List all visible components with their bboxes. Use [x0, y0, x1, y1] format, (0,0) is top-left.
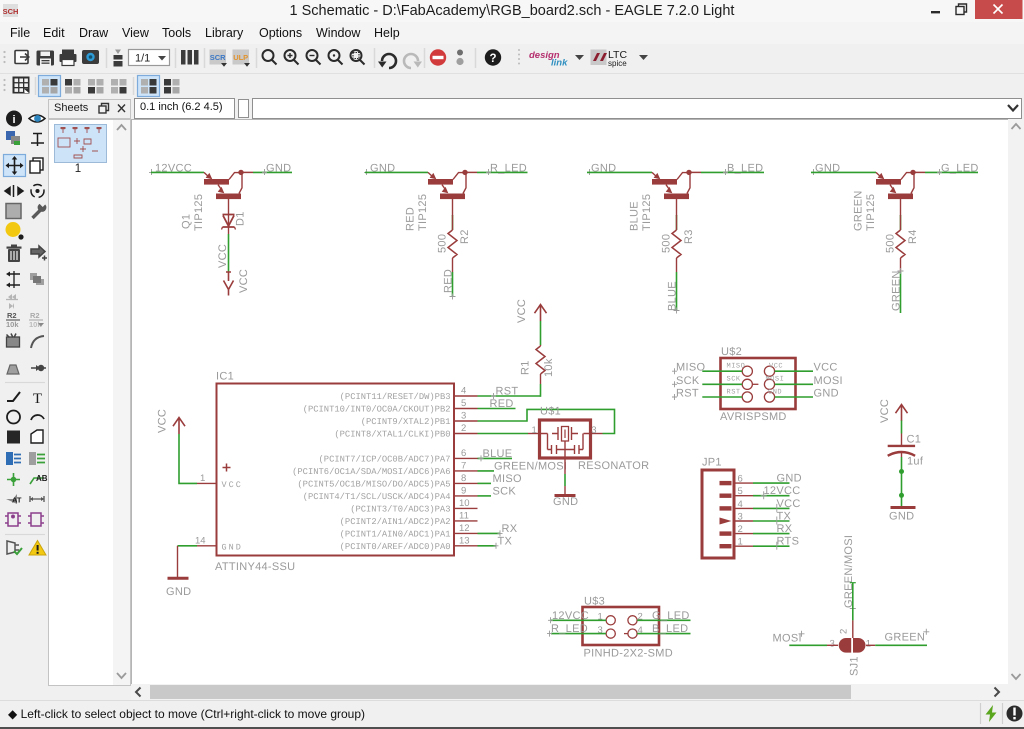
svg-text:RST: RST — [727, 388, 741, 396]
node GND label — [262, 163, 291, 176]
svg-text:2: 2 — [461, 423, 466, 434]
wire R1 to RST net — [540, 384, 542, 397]
supply VCC arrow down — [224, 272, 234, 296]
node B_LED label — [723, 163, 763, 176]
svg-text:1: 1 — [738, 537, 743, 548]
wire U$2 to MOSI — [775, 383, 813, 385]
transistor Q4 GREEN TIP125 — [876, 170, 916, 199]
svg-text:GND: GND — [777, 473, 802, 485]
svg-text:5: 5 — [461, 398, 466, 409]
svg-text:GREEN: GREEN — [853, 190, 865, 231]
svg-text:VCC: VCC — [222, 480, 243, 490]
svg-text:VCC: VCC — [217, 244, 229, 268]
window chrome — [0, 0, 1024, 22]
node TX label — [777, 511, 792, 525]
sheets header icons — [96, 101, 130, 117]
svg-text:12: 12 — [459, 523, 470, 534]
svg-text:IC1: IC1 — [216, 371, 234, 383]
svg-text:VCC: VCC — [777, 498, 801, 510]
node 12VCC label — [149, 163, 192, 176]
svg-text:GREEN/MOSI: GREEN/MOSI — [494, 460, 567, 472]
svg-text:1: 1 — [532, 425, 537, 436]
U$2 pads — [742, 366, 774, 402]
toolbar row 1 icons — [0, 44, 1024, 73]
svg-text:AB: AB — [36, 474, 48, 483]
svg-text:Q1: Q1 — [181, 214, 193, 229]
header JP1 box — [702, 470, 734, 558]
wire VCC to pin 1 — [179, 434, 197, 483]
resonator internals — [541, 427, 590, 459]
resistor R2 — [448, 215, 457, 272]
svg-text:U$1: U$1 — [540, 406, 561, 418]
svg-text:10k: 10k — [6, 320, 19, 329]
resistor R3 — [672, 215, 681, 272]
resistor R1 — [536, 345, 545, 384]
node RST label — [491, 386, 518, 400]
wire pin7 GREEN/MOSI — [478, 470, 495, 472]
supply VCC arrow up at IC1 — [173, 418, 185, 435]
transistor Q1 TIP125 — [204, 170, 244, 199]
pin 1 stub — [197, 482, 217, 484]
header U$3 box — [583, 607, 660, 645]
svg-text:VCC: VCC — [516, 299, 528, 323]
supply VCC arrow up at C1 — [896, 405, 908, 422]
svg-text:RED: RED — [405, 207, 417, 231]
svg-text:1/1: 1/1 — [135, 53, 150, 65]
svg-text:BLUE: BLUE — [629, 201, 641, 231]
svg-text:C1: C1 — [907, 434, 922, 446]
svg-text:500: 500 — [885, 234, 897, 253]
svg-text:i: i — [12, 114, 15, 126]
svg-text:R_LED: R_LED — [551, 623, 588, 635]
svg-text:1: 1 — [200, 473, 205, 484]
wire R3 to BLUE net — [676, 272, 678, 310]
svg-text:GND: GND — [889, 511, 914, 523]
svg-text:ULP: ULP — [233, 53, 248, 62]
wire Q3 collector to B_LED — [689, 171, 764, 173]
toolbar row 2 icons — [0, 74, 1024, 98]
node 12VCC label — [548, 610, 589, 624]
JP1 pin stubs — [734, 483, 753, 546]
svg-text:G_LED: G_LED — [652, 610, 690, 622]
resonator U$1 box — [540, 420, 591, 458]
wire pin8 MISO — [478, 482, 492, 484]
svg-text:AT: AT — [12, 496, 22, 505]
svg-text:GND: GND — [768, 388, 782, 396]
node MOSI label — [773, 631, 805, 645]
node RST label — [672, 388, 699, 400]
svg-text:MISO: MISO — [727, 362, 746, 370]
U$2 pad names — [727, 362, 785, 396]
pin 1 stub — [528, 433, 540, 435]
svg-text:TX: TX — [777, 511, 792, 523]
svg-text:(PCINT5/OC1B/MISO/DO/ADC5)PA5: (PCINT5/OC1B/MISO/DO/ADC5)PA5 — [297, 479, 450, 489]
svg-text:R1: R1 — [520, 360, 532, 375]
svg-text:SCK: SCK — [493, 485, 517, 497]
svg-text:3: 3 — [738, 512, 743, 523]
svg-text:GND: GND — [222, 542, 243, 552]
node R_LED label — [486, 163, 527, 176]
svg-text:(PCINT3/T0/ADC3)PA3: (PCINT3/T0/ADC3)PA3 — [350, 504, 450, 514]
wire VCC to R1 — [540, 321, 542, 345]
svg-text:R2: R2 — [7, 311, 17, 320]
U$3 pads — [606, 616, 637, 639]
svg-text:link: link — [551, 58, 568, 69]
wire R_LED to pad3 — [551, 633, 606, 635]
node GREEN/MOSI label vertical — [843, 535, 856, 612]
junction dot — [899, 469, 904, 474]
svg-text:RED: RED — [443, 269, 455, 293]
capacitor C1 plates — [888, 446, 915, 457]
sheets list scrollbar chevrons — [113, 120, 130, 685]
svg-text:SJ1: SJ1 — [849, 656, 861, 676]
svg-text:BLUE: BLUE — [483, 448, 513, 460]
svg-text:VCC: VCC — [769, 362, 783, 370]
ground symbol under IC1 — [168, 577, 189, 580]
svg-text:R_LED: R_LED — [490, 163, 527, 175]
svg-text:ATTINY44-SSU: ATTINY44-SSU — [215, 561, 295, 573]
svg-text:SCK: SCK — [676, 375, 700, 387]
svg-text:RTS: RTS — [777, 536, 800, 548]
svg-text:R4: R4 — [907, 229, 919, 244]
svg-text:500: 500 — [661, 234, 673, 253]
svg-text:MOSI: MOSI — [773, 632, 802, 644]
svg-text:500: 500 — [437, 234, 449, 253]
svg-text:GREEN: GREEN — [891, 270, 903, 311]
wire U$2 to GND — [775, 396, 813, 398]
combobox chevron — [1006, 102, 1022, 115]
svg-text:3: 3 — [591, 425, 596, 436]
wire R4 to GREEN net — [900, 272, 902, 313]
wire Q4 collector to G_LED — [913, 171, 978, 173]
wire pin4 RST — [478, 395, 541, 397]
wire GND to Q2 — [365, 171, 428, 173]
svg-text:3: 3 — [461, 411, 466, 422]
node 12VCC label — [761, 485, 801, 499]
svg-text:SCR: SCR — [210, 53, 226, 62]
node GND label — [364, 163, 395, 176]
svg-text:BLUE: BLUE — [667, 281, 679, 311]
wire SCK to U$2 — [702, 383, 742, 385]
svg-text:5: 5 — [738, 486, 743, 497]
svg-text:10k: 10k — [543, 358, 555, 377]
wire GREEN/MOSI to SJ1 pin2 — [850, 583, 856, 638]
svg-text:RX: RX — [777, 523, 793, 535]
wire GND to Q4 — [811, 171, 876, 173]
node RX label — [498, 523, 518, 537]
svg-text:RX: RX — [502, 523, 518, 535]
resistor R4 — [896, 215, 905, 272]
wire C1 to GND — [901, 457, 903, 506]
SCH app icon — [3, 3, 19, 19]
node SCK label — [672, 375, 700, 388]
svg-text:13: 13 — [459, 535, 470, 546]
svg-text:VCC: VCC — [238, 269, 250, 293]
svg-text:VCC: VCC — [879, 399, 891, 423]
JP1 pin marks — [720, 481, 732, 549]
svg-text:GND: GND — [814, 388, 839, 400]
diode D1 — [222, 214, 236, 234]
pin 3 stub — [591, 433, 603, 435]
svg-text:R3: R3 — [683, 229, 695, 244]
node G_LED label — [937, 163, 979, 176]
wire resonator pin2 to GND — [564, 458, 566, 495]
wire MOSI to SJ1 — [789, 644, 838, 646]
svg-text:(PCINT4/T1/SCL/USCK/ADC4)PA4: (PCINT4/T1/SCL/USCK/ADC4)PA4 — [303, 492, 451, 502]
svg-text:(PCINT1/AIN0/ADC1)PA1: (PCINT1/AIN0/ADC1)PA1 — [340, 529, 451, 539]
node BLUE label — [479, 448, 513, 462]
svg-text:MOSI: MOSI — [814, 375, 843, 387]
node TX label — [494, 535, 513, 549]
svg-text:8: 8 — [461, 473, 466, 484]
svg-text:12VCC: 12VCC — [552, 610, 589, 622]
node VCC label — [777, 498, 801, 512]
svg-text:(PCINT9/XTAL2)PB1: (PCINT9/XTAL2)PB1 — [361, 417, 451, 427]
supply VCC arrow up at R1 — [535, 305, 547, 322]
wire RST to U$2 — [702, 396, 742, 398]
IC1 pin names — [292, 392, 450, 552]
wire pin14 to GND — [178, 546, 198, 578]
wire pin5 RED — [478, 408, 516, 410]
left tool palette icons — [0, 108, 50, 568]
svg-text:6: 6 — [461, 448, 466, 459]
svg-text:TIP125: TIP125 — [865, 194, 877, 231]
op IC1 box — [217, 384, 455, 556]
wire MISO to U$2 — [702, 370, 742, 372]
wire pad2 to G_LED — [637, 619, 690, 621]
wire Q1 collector to GND label — [241, 171, 292, 173]
svg-text:2: 2 — [738, 524, 743, 535]
svg-text:(PCINT2/AIN1/ADC2)PA2: (PCINT2/AIN1/ADC2)PA2 — [340, 517, 451, 527]
status bar right icons — [975, 700, 1024, 727]
svg-text:4: 4 — [461, 386, 466, 397]
wire pin13 TX — [478, 545, 497, 547]
solder jumper SJ1 pads — [839, 638, 866, 653]
svg-text:MISO: MISO — [676, 362, 705, 374]
svg-text:MISO: MISO — [493, 473, 522, 485]
svg-text:D1: D1 — [235, 211, 247, 226]
svg-text:(PCINT11/RESET/DW)PB3: (PCINT11/RESET/DW)PB3 — [340, 392, 451, 402]
svg-text:G_LED: G_LED — [941, 163, 979, 175]
JP1 pin numbers — [738, 474, 743, 548]
svg-text:10: 10 — [459, 498, 470, 509]
svg-text:SCH: SCH — [3, 7, 18, 16]
svg-text:14: 14 — [195, 535, 206, 546]
svg-text:PINHD-2X2-SMD: PINHD-2X2-SMD — [584, 648, 673, 660]
wire pin6 BLUE — [478, 457, 513, 459]
node GREEN label — [885, 629, 930, 644]
node RTS label — [777, 536, 800, 550]
svg-text:11: 11 — [459, 510, 469, 521]
IC1 right pin numbers — [459, 386, 470, 547]
svg-text:VCC: VCC — [814, 362, 838, 374]
svg-text:6: 6 — [738, 474, 743, 485]
wire pin2 to resonator pin1 — [478, 433, 529, 435]
node GND label — [811, 163, 840, 176]
svg-text:TX: TX — [498, 535, 513, 547]
svg-text:VCC: VCC — [157, 409, 169, 433]
wire R2 to RED net — [452, 272, 454, 296]
wire 12VCC to Q1 — [151, 171, 204, 173]
svg-text:?: ? — [489, 53, 496, 65]
svg-text:GND: GND — [553, 496, 578, 508]
svg-text:(PCINT6/OC1A/SDA/MOSI/ADC6)PA6: (PCINT6/OC1A/SDA/MOSI/ADC6)PA6 — [292, 467, 450, 477]
svg-text:4: 4 — [738, 499, 743, 510]
svg-text:U$2: U$2 — [721, 346, 742, 358]
node RED net label — [443, 269, 456, 300]
header U$2 box — [721, 358, 796, 409]
node R_LED label — [547, 623, 588, 637]
wire Q4 emitter to R4 — [900, 199, 902, 216]
pin 14 stub — [197, 545, 217, 547]
wire VCC to C1 — [901, 421, 903, 446]
svg-text:7: 7 — [461, 460, 466, 471]
wire pin12 RX — [478, 532, 501, 534]
svg-text:(PCINT0/AREF/ADC0)PA0: (PCINT0/AREF/ADC0)PA0 — [340, 542, 451, 552]
svg-text:9: 9 — [461, 485, 466, 496]
IC1 right pin stubs — [454, 396, 478, 546]
svg-text:RST: RST — [676, 388, 699, 400]
node BLUE net label — [667, 281, 680, 313]
svg-text:(PCINT7/ICP/OC0B/ADC7)PA7: (PCINT7/ICP/OC0B/ADC7)PA7 — [319, 454, 451, 464]
wire Q3 emitter to R3 — [676, 199, 678, 216]
wire SJ1 to GREEN — [866, 644, 927, 646]
svg-text:B_LED: B_LED — [727, 163, 763, 175]
svg-text:(PCINT10/INT0/OC0A/CKOUT)PB2: (PCINT10/INT0/OC0A/CKOUT)PB2 — [303, 405, 451, 415]
wire U$2 to VCC — [775, 370, 813, 372]
svg-text:12VCC: 12VCC — [764, 485, 801, 497]
U$3 pin numbers — [598, 612, 643, 636]
wire Q2 collector to R_LED — [465, 171, 528, 173]
svg-text:RST: RST — [496, 386, 519, 398]
wire Q1 emitter down — [228, 199, 230, 215]
ground symbol under C1 — [891, 506, 916, 509]
junction dot — [899, 493, 904, 498]
node GREEN net label — [891, 268, 904, 311]
svg-text:GND: GND — [266, 163, 291, 175]
svg-text:TIP125: TIP125 — [193, 194, 205, 231]
svg-text:GND: GND — [166, 586, 191, 598]
svg-text:B_LED: B_LED — [652, 623, 688, 635]
wire 12VCC to pad1 — [551, 619, 606, 621]
svg-text:R2: R2 — [30, 311, 40, 320]
wire pin9 SCK — [478, 495, 492, 497]
wire pad4 to B_LED — [637, 633, 690, 635]
wire Q2 emitter to R2 — [452, 199, 454, 216]
svg-text:2: 2 — [839, 629, 850, 634]
transistor Q2 RED TIP125 — [428, 170, 468, 199]
svg-text:1uf: 1uf — [907, 456, 924, 468]
svg-text:R2: R2 — [459, 229, 471, 244]
svg-text:SCK: SCK — [727, 375, 741, 383]
svg-text:TIP125: TIP125 — [641, 194, 653, 231]
IC1 plus mark — [223, 464, 231, 472]
svg-text:JP1: JP1 — [702, 457, 722, 469]
node GND label — [587, 163, 616, 176]
transistor Q3 BLUE TIP125 — [652, 170, 692, 199]
svg-text:AVRISPSMD: AVRISPSMD — [720, 411, 787, 423]
svg-text:T: T — [33, 391, 42, 407]
wire pin3 to resonator pin3 — [478, 409, 615, 433]
svg-text:(PCINT8/XTAL1/CLKI)PB0: (PCINT8/XTAL1/CLKI)PB0 — [334, 430, 450, 440]
svg-text:RED: RED — [490, 398, 514, 410]
node MISO label — [672, 362, 705, 375]
ground symbol under resonator — [555, 494, 576, 497]
window buttons — [925, 0, 1024, 22]
svg-text:RESONATOR: RESONATOR — [578, 460, 649, 472]
svg-text:TIP125: TIP125 — [417, 194, 429, 231]
svg-text:spice: spice — [608, 59, 627, 68]
svg-text:MOSI: MOSI — [766, 375, 785, 383]
wire GND to Q3 — [587, 171, 652, 173]
wire D1 to VCC — [228, 234, 230, 272]
svg-text:1: 1 — [866, 639, 871, 650]
svg-text:3: 3 — [830, 639, 835, 650]
svg-text:GREEN: GREEN — [885, 631, 926, 643]
sheet thumbnail mini schematic — [54, 124, 107, 163]
JP1 net wires — [753, 483, 790, 546]
